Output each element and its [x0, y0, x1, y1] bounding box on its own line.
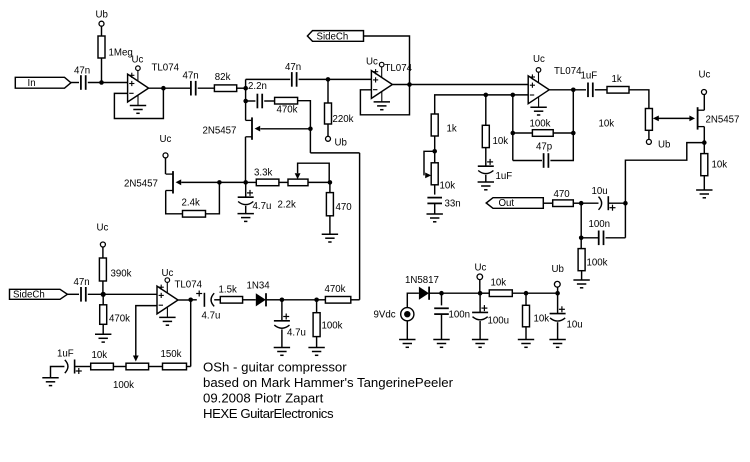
svg-text:47n: 47n	[183, 71, 199, 82]
op-amp U1D TL074	[157, 286, 178, 314]
capacitor 10u (output, polarized)	[581, 202, 598, 204]
node U1C output	[571, 88, 576, 93]
wire 1k to pot 10k	[434, 136, 436, 163]
wire 47p to output rail	[550, 90, 573, 161]
diode D1 1N34	[256, 293, 266, 306]
wire U1A output	[149, 87, 191, 89]
wire R 470 to node	[573, 202, 581, 204]
svg-text:Ub: Ub	[335, 138, 347, 149]
svg-text:Uc: Uc	[533, 54, 545, 65]
wire JFET2 gate line (control node)	[181, 181, 246, 183]
svg-text:1Meg: 1Meg	[109, 48, 133, 59]
wire C 33n to ground	[434, 203, 436, 214]
capacitor 100u (polarized)	[472, 311, 488, 313]
wire Ub node to C 10u	[557, 293, 559, 313]
svg-text:based on Mark Hammer's Tanger: based on Mark Hammer's TangerinePeeler	[203, 375, 454, 390]
svg-text:33n: 33n	[445, 199, 461, 210]
capacitor 10u (Ub, polarized)	[550, 313, 566, 315]
capacitor 47n (to U1B +)	[291, 72, 293, 87]
terminal Uc (JFET3)	[702, 90, 707, 95]
terminal Ub (pot)	[646, 139, 651, 144]
capacitor 100n (PSU)	[434, 307, 449, 309]
transistor Q1 2N5457 (JFET)	[251, 117, 253, 139]
capacitor 1uF (polarized)	[478, 165, 494, 167]
wire Out to R 470	[543, 202, 552, 204]
wire envelope to 100k	[282, 299, 317, 301]
node output RC	[579, 201, 584, 206]
ground (envelope cap)	[274, 347, 290, 349]
ground (output 100k)	[573, 279, 589, 281]
node PSU 1	[439, 291, 444, 296]
wire U1D output to C 4.7u	[191, 299, 197, 301]
wire Uc to R 390k	[102, 247, 104, 258]
potentiometer 10k (threshold)	[645, 109, 652, 131]
wire U1A feedback (output to - input)	[114, 88, 163, 118]
ground (gain set)	[42, 377, 58, 379]
capacitor 4.7u (sidechain, polarized)	[203, 293, 205, 307]
node feedback 100k right	[571, 131, 576, 136]
diode D2 1N5817	[419, 287, 429, 300]
resistor 1Meg	[98, 36, 105, 58]
node 10k tap	[484, 93, 489, 98]
wire node down to C 100n	[441, 293, 443, 305]
svg-text:09.2008 Piotr Zapart: 09.2008 Piotr Zapart	[203, 391, 324, 406]
svg-text:100k: 100k	[322, 321, 343, 332]
node 100n	[579, 236, 584, 241]
resistor 10k (gain set)	[91, 363, 114, 370]
svg-text:100k: 100k	[587, 258, 608, 269]
capacitor 1uF (output coupling)	[587, 83, 589, 98]
wire pot 10k to C 33n	[434, 185, 436, 195]
connector SideCh (input)	[10, 289, 68, 299]
resistor 82k	[214, 85, 236, 92]
resistor 10k (PSU divider)	[489, 290, 512, 297]
wire SideCh to U1B output node	[364, 36, 410, 85]
svg-text:Uc: Uc	[97, 223, 109, 234]
pot 10k wiper to JFET3 gate	[655, 117, 692, 119]
node Ub	[555, 291, 560, 296]
svg-text:470: 470	[336, 202, 353, 213]
transistor Q2 2N5457 (JFET)	[172, 171, 174, 193]
node feedback 100k left	[511, 131, 516, 136]
wire Uc to JFET2 drain	[165, 158, 167, 174]
wire C 100n to rail	[606, 237, 626, 239]
ground (sidechain bias)	[95, 333, 111, 335]
wire R 2.4k up to gate line	[206, 182, 220, 213]
capacitor 1uF (gain set, polarized)	[74, 360, 76, 374]
potentiometer 2.2k	[288, 179, 308, 186]
svg-text:82k: 82k	[215, 72, 231, 83]
svg-text:2N5457: 2N5457	[203, 126, 237, 137]
wire C 47n to R 82k	[198, 87, 215, 89]
svg-text:4.7u: 4.7u	[287, 328, 306, 339]
wire C 47n to op-amp U1A + input	[88, 82, 128, 84]
svg-text:Uc: Uc	[162, 268, 174, 279]
svg-text:1N34: 1N34	[247, 281, 271, 292]
wire JFET1 source down to control node	[245, 137, 247, 183]
svg-text:470k: 470k	[109, 314, 130, 325]
wire 150k to pot 100k	[149, 366, 163, 368]
terminal Ub (220k)	[326, 136, 331, 141]
wire Uc to JFET3 drain	[703, 94, 705, 110]
svg-text:4.7u: 4.7u	[253, 201, 272, 212]
svg-text:4.7u: 4.7u	[202, 311, 221, 322]
wire U1B output to U1C + input	[410, 84, 529, 86]
terminal Ub (top left)	[99, 21, 104, 26]
node B (2.2n junction)	[243, 99, 248, 104]
capacitor 33n	[427, 197, 442, 199]
capacitor 47p	[543, 153, 545, 168]
resistor 3.3k	[256, 179, 279, 186]
wire U1D - input to pot wiper	[136, 306, 157, 357]
svg-text:Uc: Uc	[699, 70, 711, 81]
wire node to R 470	[329, 182, 331, 192]
wire U1C - input network rail	[435, 95, 529, 114]
wire node to R 470k	[102, 294, 104, 305]
wire U1B feedback box	[360, 85, 409, 115]
svg-text:47p: 47p	[536, 142, 552, 153]
capacitor 47n (input)	[80, 75, 82, 90]
svg-text:TL074: TL074	[152, 63, 180, 74]
wire node B to C 2.2n	[246, 100, 256, 102]
wire C 1uF to R 1k	[595, 89, 607, 91]
wire C 10u to ground	[557, 322, 559, 339]
svg-text:SideCh: SideCh	[13, 290, 45, 301]
wire control node to R 3.3k	[246, 181, 257, 183]
svg-text:1uF: 1uF	[496, 171, 513, 182]
svg-text:TL074: TL074	[175, 280, 203, 291]
resistor 100k (envelope)	[313, 313, 320, 337]
svg-text:10k: 10k	[493, 136, 509, 147]
resistor 10k (divider lower)	[523, 305, 530, 327]
ground (PSU 100n)	[433, 339, 449, 341]
svg-text:Ub: Ub	[552, 264, 564, 275]
wire C 2.2n to R 470k	[264, 100, 274, 102]
node pot2.2k/470	[328, 180, 333, 185]
wire pot 2.2k wiper loop	[298, 163, 330, 182]
capacitor 4.7u (envelope, polarized)	[274, 320, 290, 322]
node U1B output	[407, 82, 412, 87]
wire node down to 100n	[580, 203, 582, 238]
svg-text:470k: 470k	[325, 284, 346, 295]
wire R 100k to ground	[581, 271, 583, 280]
wire C 4.7u to ground	[245, 206, 247, 214]
node JFET1 gate	[308, 127, 313, 132]
wire riser node A	[245, 79, 247, 120]
svg-text:390k: 390k	[111, 269, 132, 280]
terminal Ub (PSU)	[554, 281, 560, 287]
svg-text:Uc: Uc	[132, 55, 144, 66]
svg-text:HEXE GuitarElectronics: HEXE GuitarElectronics	[203, 406, 334, 421]
wire R 10k to ground	[703, 176, 705, 190]
svg-text:47n: 47n	[74, 66, 90, 77]
wire R 100k to ground	[316, 337, 318, 348]
ground (33n)	[427, 213, 443, 215]
wire pot 100k to R 10k	[113, 366, 126, 368]
svg-text:2N5457: 2N5457	[706, 115, 740, 126]
wire C 1uF to ground	[485, 175, 487, 182]
resistor 470k (sidechain bias)	[100, 305, 107, 325]
svg-text:47n: 47n	[285, 62, 301, 73]
op-amp U1A TL074	[128, 74, 149, 102]
svg-text:10u: 10u	[592, 186, 608, 197]
ground (envelope 100k)	[308, 347, 324, 349]
capacitor 47n (sidechain)	[80, 287, 82, 302]
op-amp U1C TL074	[528, 76, 549, 104]
wire feedback left branch	[512, 95, 514, 161]
potentiometer 100k (sustain)	[126, 363, 149, 370]
wire D 1N34 to node	[266, 299, 282, 301]
wire C 100n to ground	[441, 314, 443, 339]
svg-text:150k: 150k	[161, 349, 182, 360]
node 10u right	[623, 201, 628, 206]
wire 47p branch	[513, 160, 542, 162]
wire 10k to C 1uF	[485, 148, 487, 167]
wire R 470k to 360 rail	[351, 299, 360, 301]
potentiometer 10k (gain)	[431, 163, 438, 185]
svg-text:2.2n: 2.2n	[248, 81, 267, 92]
ground (control cap)	[238, 213, 254, 215]
ground (9V)	[399, 339, 415, 341]
svg-text:In: In	[28, 78, 36, 89]
wire node to R 100k	[580, 238, 582, 249]
wire C 100u to ground	[479, 321, 481, 340]
capacitor 4.7u (control, polarized)	[238, 196, 254, 198]
svg-text:10u: 10u	[567, 320, 583, 331]
wire Uc terminal to node	[479, 280, 481, 294]
svg-text:100k: 100k	[113, 380, 134, 391]
resistor 10k (to 1uF)	[482, 125, 489, 147]
wire JFET3 source node to R 10k	[703, 143, 705, 154]
wire C 10u to node	[608, 202, 625, 204]
node 100k/47p tap	[511, 93, 516, 98]
wire R 10k to ground	[525, 327, 527, 340]
wire Ub to R 1Meg	[101, 26, 103, 36]
svg-text:10k: 10k	[712, 160, 728, 171]
svg-text:10k: 10k	[440, 181, 456, 192]
wire C 4.7u to ground	[281, 329, 283, 347]
transistor Q3 2N5457 (JFET)	[697, 107, 699, 129]
ground (1uF)	[478, 181, 494, 183]
node U1D output	[188, 298, 193, 303]
capacitor 47n (interstage)	[190, 81, 192, 96]
wire R 220k to Ub	[327, 124, 329, 136]
resistor 470 (output)	[553, 200, 574, 207]
node envelope	[280, 298, 285, 303]
svg-text:1N5817: 1N5817	[405, 275, 439, 286]
wire 360 rail (down to 470k sidechain)	[359, 153, 361, 300]
svg-text:TL074: TL074	[385, 63, 413, 74]
capacitor 100n (output)	[581, 237, 599, 239]
wire Ub terminal to node	[557, 287, 559, 293]
wire 10k tap down	[485, 95, 487, 125]
svg-text:47n: 47n	[74, 277, 90, 288]
wire JFET3 source down	[703, 127, 705, 143]
resistor 1.5k	[220, 297, 242, 304]
wire U1B output	[393, 84, 410, 86]
wire PSU node1 to Uc node	[442, 292, 481, 294]
wire U1D output	[178, 299, 191, 301]
wire R 1k to pot 10k top	[629, 90, 649, 109]
svg-text:9Vdc: 9Vdc	[374, 310, 396, 321]
wire C 47n to node	[88, 293, 157, 295]
wire diode to node	[430, 292, 442, 294]
resistor 220k	[325, 103, 332, 124]
wire 9V to diode	[407, 293, 419, 307]
svg-text:1uF: 1uF	[57, 349, 74, 360]
wire SideCh to C 47n	[67, 293, 79, 295]
svg-text:470: 470	[554, 189, 571, 200]
node A (82k junction)	[243, 86, 248, 91]
wire R 3.3k to pot 2.2k	[279, 181, 288, 183]
resistor 390k	[99, 258, 106, 281]
wire R 82k to node A	[237, 87, 246, 89]
op-amp U1B TL074	[371, 71, 392, 99]
svg-text:Ub: Ub	[96, 10, 108, 21]
terminal Uc (PSU)	[477, 274, 483, 280]
wire node to R 10k (lower)	[525, 293, 527, 305]
wire U1D gain network	[190, 300, 192, 367]
wire pot 10k wiper loop	[424, 151, 435, 175]
svg-text:100n: 100n	[449, 310, 471, 321]
svg-text:10k: 10k	[92, 350, 108, 361]
ground (470)	[322, 233, 338, 235]
node 2.4k junction	[217, 180, 222, 185]
svg-text:1k: 1k	[612, 74, 622, 85]
node input junction	[99, 80, 104, 85]
wire node A up to C 47n (sidechain feed)	[246, 78, 291, 80]
svg-text:Out: Out	[499, 198, 515, 209]
resistor 1k (to pot)	[607, 87, 629, 94]
node 100k (envelope)	[314, 298, 319, 303]
wire C 47n to op-amp U1B + input	[299, 78, 372, 80]
wire JFET2 source to R 2.4k	[166, 191, 183, 214]
svg-text:220k: 220k	[333, 114, 354, 125]
wire C 4.7u to R 1.5k	[214, 299, 220, 301]
node control (Q1 source / C4.7u / 3.3k)	[243, 180, 248, 185]
connector 9Vdc	[401, 308, 414, 321]
terminal Uc (390k)	[100, 242, 105, 247]
node JFET3 source	[702, 140, 707, 145]
resistor 1k (to 10k pot)	[431, 114, 438, 136]
svg-text:OSh - guitar compressor: OSh - guitar compressor	[203, 360, 347, 375]
svg-text:1uF: 1uF	[581, 71, 598, 82]
resistor 10k (JFET3 source)	[701, 154, 708, 176]
node Uc	[478, 291, 483, 296]
resistor 150k	[163, 363, 187, 370]
terminal Uc (JFET2 drain)	[163, 153, 168, 158]
wire C 1uF to ground	[51, 367, 65, 378]
wire envelope node to C 4.7u	[281, 300, 283, 321]
svg-text:1k: 1k	[447, 124, 457, 135]
svg-text:10k: 10k	[599, 119, 615, 130]
svg-text:Uc: Uc	[160, 134, 172, 145]
ground (JFET3 source)	[696, 189, 712, 191]
ground (100u)	[472, 339, 488, 341]
wire R 10k to C 1uF	[75, 366, 91, 368]
wire control node to C 4.7u	[245, 182, 247, 197]
node PSU mid	[524, 291, 529, 296]
wire Uc node to C 100u	[479, 293, 481, 312]
ground (divider)	[518, 339, 534, 341]
resistor 470	[326, 193, 333, 216]
wire Uc node to R 10k	[480, 292, 489, 294]
resistor 470k (to control rail)	[325, 297, 350, 304]
svg-text:Ub: Ub	[658, 140, 670, 151]
node U1A output	[161, 86, 166, 91]
wire R 1.5k to D 1N34	[243, 299, 256, 301]
svg-text:2.2k: 2.2k	[278, 200, 296, 211]
wire 9V connector to ground	[406, 321, 408, 340]
svg-text:2.4k: 2.4k	[182, 198, 200, 209]
wire gate node down-right to x360 rail	[310, 152, 359, 154]
wire R 1Meg to input node	[101, 58, 103, 83]
svg-text:1.5k: 1.5k	[219, 285, 237, 296]
svg-text:470k: 470k	[277, 105, 298, 116]
wire In to C 47n	[71, 82, 79, 84]
svg-text:SideCh: SideCh	[317, 31, 349, 42]
resistor 2.4k	[183, 211, 206, 218]
wire tap down to R 220k	[327, 79, 329, 103]
wire 100k right to output rail	[553, 132, 573, 134]
wire JFET1 gate line	[260, 128, 310, 130]
connector In	[15, 77, 71, 88]
node sidechain input	[101, 292, 106, 297]
wire R 470 to ground	[329, 216, 331, 234]
wire R 390k to node	[102, 281, 104, 294]
svg-text:100k: 100k	[530, 119, 551, 130]
svg-text:TL074: TL074	[554, 66, 582, 77]
svg-text:100n: 100n	[589, 219, 611, 230]
capacitor 2.2n	[256, 94, 258, 109]
connector SideCh (top)	[307, 31, 363, 42]
wire R 10k to Ub node	[512, 292, 557, 294]
svg-text:2N5457: 2N5457	[124, 179, 158, 190]
svg-text:3.3k: 3.3k	[254, 168, 272, 179]
wire R 470k to JFET1 gate line	[298, 101, 311, 153]
connector Out	[486, 198, 543, 209]
wire JFET3 source node to out caps	[625, 143, 704, 238]
wire pot 2.2k right end to node	[308, 181, 330, 183]
node 220k tap	[326, 77, 331, 82]
wire envelope node to R 470k	[317, 299, 326, 301]
resistor 100k (U1C feedback)	[513, 132, 533, 134]
resistor 470k (JFET1 gate feed)	[275, 97, 298, 104]
svg-text:Uc: Uc	[366, 57, 378, 68]
ground (Ub cap)	[549, 339, 565, 341]
svg-text:100u: 100u	[488, 316, 510, 327]
resistor 100k (output load)	[578, 249, 585, 271]
wire node to R 100k	[316, 300, 318, 313]
node 1k/pot	[432, 149, 437, 154]
svg-text:Uc: Uc	[475, 263, 487, 274]
wire U1C output	[549, 89, 586, 91]
svg-text:10k: 10k	[491, 278, 507, 289]
svg-text:10k: 10k	[534, 314, 550, 325]
wire R 470k to ground	[102, 324, 104, 334]
wire pot 10k bottom to Ub	[648, 130, 650, 139]
